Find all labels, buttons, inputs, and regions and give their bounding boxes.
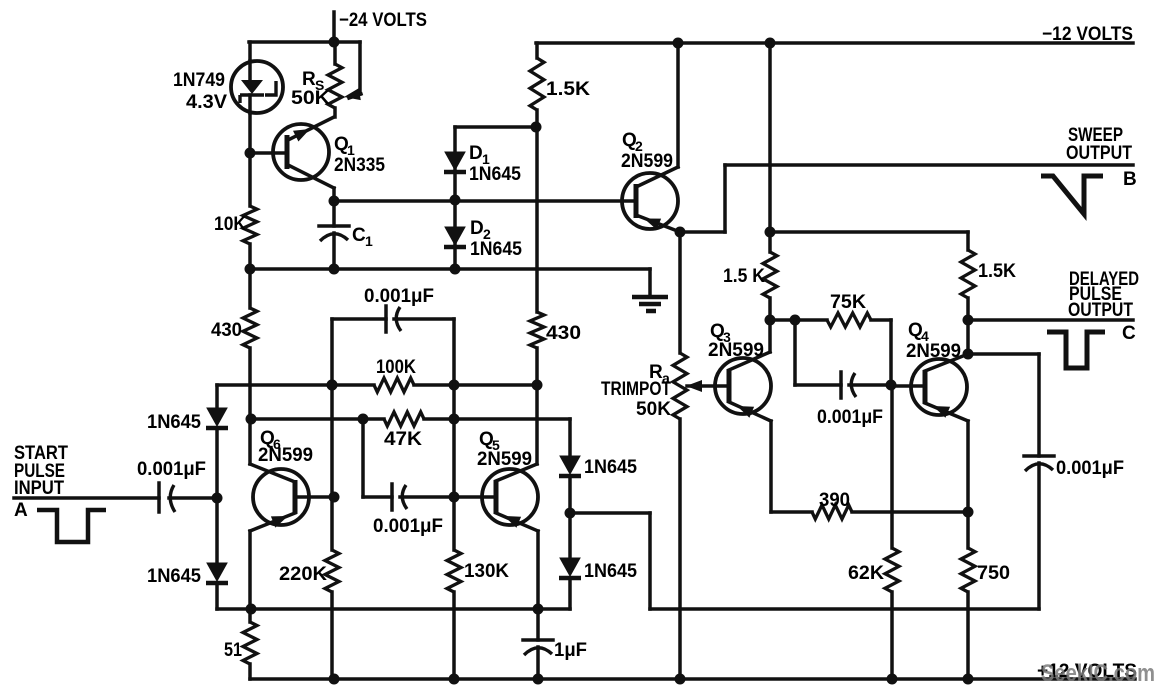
wire: [215, 385, 219, 408]
wire Q6 base junction: [329, 492, 340, 503]
svg-text:430: 430: [211, 320, 242, 341]
svg-text:1N645: 1N645: [147, 412, 201, 433]
wire: [245, 264, 651, 275]
resistor 430 (right, Q5 collector load): [530, 312, 581, 348]
svg-text:TRIMPOT: TRIMPOT: [601, 379, 671, 400]
transistor Q1 2N335: [250, 108, 385, 188]
wire: [329, 592, 340, 685]
wire: [329, 188, 340, 226]
svg-text:10K: 10K: [214, 214, 246, 235]
resistor 1.5K (Q3 collector load): [723, 252, 777, 298]
wire: [455, 122, 542, 133]
svg-text:D: D: [470, 218, 484, 239]
capacitor 0.001uF (Q4 output): [968, 354, 1124, 609]
svg-text:0.001μF: 0.001μF: [137, 459, 206, 480]
svg-text:2N599: 2N599: [258, 445, 313, 466]
wire: [245, 113, 256, 206]
svg-text:0.001μF: 0.001μF: [817, 407, 883, 428]
svg-text:2N599: 2N599: [477, 449, 532, 470]
wire: [887, 592, 898, 685]
net +12 VOLTS supply rail (bottom): [250, 661, 1137, 682]
waveform sweep output: [1041, 176, 1103, 214]
wire Q2 base: [334, 199, 636, 203]
wire: [424, 414, 570, 425]
diode D2 1N645: [444, 200, 522, 269]
capacitor C1: [319, 225, 373, 269]
wire Q5 base: [454, 495, 496, 499]
svg-text:1N645: 1N645: [584, 561, 637, 582]
waveform input pulse: [37, 510, 106, 542]
diode 1N645 (Q5 emitter chain lower): [559, 513, 637, 609]
svg-text:47K: 47K: [384, 429, 422, 450]
svg-text:1μF: 1μF: [554, 640, 587, 661]
svg-text:0.001μF: 0.001μF: [1056, 458, 1124, 479]
wire: [248, 42, 252, 61]
svg-text:2N599: 2N599: [906, 341, 961, 362]
wire: [765, 298, 776, 326]
wire: [449, 592, 460, 685]
resistor 10K: [214, 206, 257, 244]
wire Q2 emitter to sweep output: [675, 165, 726, 238]
watermark SeekIC.com: [1041, 660, 1155, 687]
svg-text:0.001μF: 0.001μF: [373, 516, 443, 537]
wire: [765, 43, 776, 252]
svg-text:C: C: [1122, 323, 1136, 344]
svg-text:1N749: 1N749: [173, 70, 225, 91]
zener diode 1N749 4.3V: [173, 61, 283, 113]
svg-text:A: A: [14, 500, 28, 521]
transistor Q5 2N599: [477, 429, 538, 531]
svg-text:−12 VOLTS: −12 VOLTS: [1042, 24, 1133, 45]
wire Q2 collector: [676, 43, 680, 167]
svg-text:1N645: 1N645: [584, 457, 637, 478]
capacitor 0.001uF (Q6 base coupling): [332, 286, 454, 332]
wire: [212, 493, 223, 504]
wire Q4 collector: [963, 320, 974, 360]
net -24 VOLTS supply rail: [249, 10, 427, 48]
svg-text:75K: 75K: [830, 292, 866, 313]
wire: [568, 419, 572, 456]
svg-text:C: C: [352, 225, 366, 246]
svg-text:SeekIC.com: SeekIC.com: [1041, 660, 1155, 687]
diode 1N645 (input clamp upper): [147, 408, 228, 497]
node C delayed pulse output line: [963, 269, 1140, 344]
svg-text:50K: 50K: [636, 399, 671, 420]
wire: [449, 319, 460, 550]
wire: [248, 348, 252, 464]
transistor Q2 2N599: [621, 130, 680, 232]
svg-text:1N645: 1N645: [469, 164, 521, 185]
wire: [532, 348, 543, 464]
svg-text:1.5K: 1.5K: [546, 79, 590, 100]
wire: [770, 315, 827, 326]
resistor 100K: [374, 357, 416, 392]
wire: [770, 230, 968, 234]
svg-text:750: 750: [977, 563, 1010, 584]
resistor 130K: [447, 550, 509, 592]
transistor Q6 2N599: [250, 428, 332, 531]
rheostat RS 50K: [291, 42, 361, 109]
svg-text:−24 VOLTS: −24 VOLTS: [339, 10, 427, 31]
wire: [650, 607, 1039, 611]
svg-text:D: D: [469, 143, 483, 164]
waveform delayed pulse output: [1047, 332, 1105, 368]
capacitor 0.001uF (input coupling): [137, 459, 217, 512]
wire: [963, 592, 974, 685]
svg-text:50K: 50K: [291, 88, 330, 109]
svg-text:OUTPUT: OUTPUT: [1066, 143, 1132, 164]
wire: [450, 195, 461, 206]
svg-text:4.3V: 4.3V: [186, 92, 227, 113]
svg-text:51: 51: [224, 640, 242, 661]
wire: [565, 508, 651, 610]
resistor 62K: [848, 548, 899, 592]
resistor 390: [812, 490, 852, 519]
wire: [535, 127, 539, 312]
wire: [361, 419, 365, 497]
wire: [890, 385, 894, 548]
transistor Q4 2N599: [891, 320, 968, 421]
resistor 51: [224, 609, 257, 679]
svg-text:2N335: 2N335: [334, 155, 385, 176]
wire: [966, 512, 970, 548]
svg-text:R: R: [302, 69, 316, 90]
ground: [632, 269, 668, 311]
capacitor 0.001uF (Q5 base coupling): [363, 484, 454, 537]
node A start pulse input: [14, 443, 159, 521]
wire Q3 collector: [768, 320, 772, 352]
svg-text:INPUT: INPUT: [14, 478, 64, 499]
svg-text:B: B: [1123, 169, 1137, 190]
wire: [248, 244, 252, 308]
wire: [675, 419, 686, 685]
resistor 220K: [279, 550, 339, 592]
wire: [246, 414, 385, 425]
svg-text:390: 390: [819, 490, 850, 511]
wire Q4 emitter: [966, 421, 970, 512]
wire: [852, 507, 974, 518]
svg-text:OUTPUT: OUTPUT: [1068, 300, 1133, 321]
wire: [217, 607, 570, 611]
wire Q3 emitter: [771, 421, 812, 512]
svg-text:0.001μF: 0.001μF: [364, 286, 434, 307]
svg-text:1: 1: [365, 233, 373, 249]
capacitor 1uF: [523, 640, 587, 685]
resistor 75K: [827, 292, 871, 327]
resistor 1.5K (Q4 collector load): [961, 232, 1016, 320]
wire Q5 emitter: [533, 531, 544, 640]
wire: [678, 232, 682, 353]
resistor 430 (left, Q6 collector load): [211, 308, 257, 348]
svg-text:2N599: 2N599: [708, 340, 764, 361]
resistor 1.5K (Q2 collector chain): [530, 43, 590, 127]
svg-text:2N599: 2N599: [621, 151, 673, 172]
svg-text:1N645: 1N645: [147, 566, 201, 587]
transistor Q3 2N599: [687, 321, 771, 421]
wire: [871, 320, 897, 391]
diode D1 1N645: [444, 127, 521, 200]
wire Q6 emitter: [246, 531, 257, 615]
svg-text:100K: 100K: [376, 357, 416, 378]
svg-text:1N645: 1N645: [470, 239, 522, 260]
svg-text:1.5K: 1.5K: [978, 261, 1016, 282]
wire: [217, 380, 374, 391]
svg-text:1.5 K: 1.5 K: [723, 266, 765, 287]
capacitor 0.001uF (Q3-Q4 coupling): [795, 320, 891, 428]
trimpot RA 50K: [601, 353, 702, 420]
net -12 VOLTS supply rail: [536, 24, 1133, 49]
svg-text:430: 430: [546, 323, 581, 344]
resistor 750: [961, 548, 1010, 592]
svg-text:220K: 220K: [279, 564, 327, 585]
node B sweep output line: [725, 125, 1137, 190]
svg-text:62K: 62K: [848, 563, 884, 584]
resistor 47K: [384, 412, 424, 450]
diode 1N645 (input clamp lower): [147, 498, 228, 609]
wire: [414, 380, 537, 391]
wire: [327, 319, 338, 550]
svg-text:130K: 130K: [464, 561, 509, 582]
diode 1N645 (Q5 emitter chain upper): [559, 456, 637, 513]
